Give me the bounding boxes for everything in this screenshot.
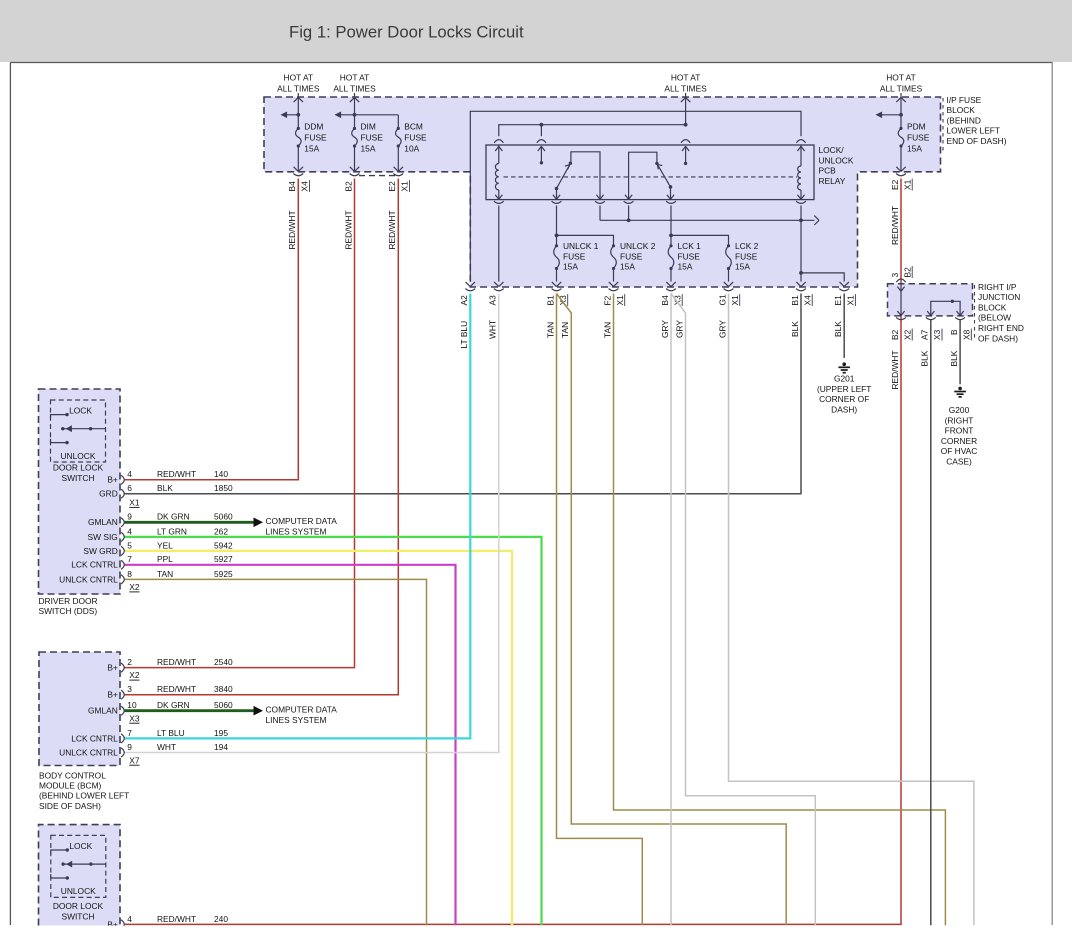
- svg-text:CASE): CASE): [946, 457, 972, 467]
- wire DDM branch arrow left: [282, 114, 299, 116]
- wire coil-L to pin A3: [498, 206, 500, 282]
- svg-text:LINES SYSTEM: LINES SYSTEM: [266, 715, 327, 725]
- pin B4/X3 connector: [666, 289, 676, 291]
- svg-text:YEL: YEL: [157, 540, 173, 550]
- svg-text:HOT AT: HOT AT: [340, 73, 369, 83]
- svg-text:B4: B4: [287, 181, 297, 192]
- bottom clip mask: [0, 926, 1072, 942]
- svg-text:5060: 5060: [214, 512, 233, 522]
- svg-text:X1: X1: [400, 181, 410, 192]
- svg-text:X4: X4: [802, 295, 812, 306]
- body control module (BCM) block: [39, 652, 120, 766]
- relay mechanical link (dashed): [504, 176, 798, 178]
- svg-text:SIDE OF DASH): SIDE OF DASH): [39, 801, 101, 811]
- connector X1 sub-box under DIM/BCM fuses: [359, 175, 395, 177]
- svg-text:B1: B1: [545, 295, 555, 306]
- fuse UNLCK 1 FUSE 15A: [555, 244, 558, 247]
- svg-text:CORNER OF: CORNER OF: [819, 394, 869, 404]
- wire relay top rail (A2 to right coil): [470, 111, 801, 281]
- relay switch SW1: [555, 187, 559, 191]
- pin B2 connector: [350, 174, 360, 176]
- svg-text:BLOCK: BLOCK: [947, 105, 976, 115]
- svg-text:FUSE: FUSE: [907, 132, 930, 142]
- svg-text:A2: A2: [459, 295, 469, 306]
- svg-text:GMLAN: GMLAN: [88, 706, 118, 716]
- svg-text:A7: A7: [920, 329, 930, 340]
- wire BLK 1850 (B1/X4 to DDS GRD): [124, 294, 801, 494]
- wire SW2 pivot to LCK fuses: [670, 206, 672, 246]
- lock/unlock PCB relay U1 box: [486, 145, 814, 200]
- svg-text:FUSE: FUSE: [620, 251, 643, 261]
- svg-text:240: 240: [214, 914, 228, 924]
- svg-text:G200: G200: [949, 405, 970, 415]
- svg-text:X8: X8: [962, 329, 972, 340]
- svg-text:DK GRN: DK GRN: [157, 700, 190, 710]
- svg-text:15A: 15A: [735, 262, 750, 272]
- svg-text:SWITCH: SWITCH: [61, 473, 94, 483]
- svg-text:LCK 1: LCK 1: [678, 241, 702, 251]
- svg-text:MODULE (BCM): MODULE (BCM): [39, 781, 102, 791]
- svg-text:RED/WHT: RED/WHT: [157, 914, 196, 924]
- wire DIM feed vertical: [354, 97, 356, 128]
- wire BLK ground run G200: [959, 320, 961, 385]
- svg-text:1850: 1850: [214, 483, 233, 493]
- svg-text:FUSE: FUSE: [563, 251, 586, 261]
- wire stub to relay pin: [540, 125, 542, 137]
- svg-text:FUSE: FUSE: [735, 251, 758, 261]
- svg-text:RED/WHT: RED/WHT: [890, 206, 900, 245]
- svg-text:PCB: PCB: [819, 166, 837, 176]
- svg-text:B+: B+: [107, 475, 118, 485]
- svg-text:GRY: GRY: [660, 320, 670, 338]
- svg-text:4: 4: [127, 914, 132, 924]
- svg-text:X4: X4: [300, 181, 310, 192]
- svg-text:5060: 5060: [214, 700, 233, 710]
- fuse DIM FUSE 15A: [353, 127, 356, 130]
- svg-text:RED/WHT: RED/WHT: [157, 469, 196, 479]
- svg-text:Fig 1: Power Door Locks Circui: Fig 1: Power Door Locks Circuit: [289, 23, 524, 42]
- svg-text:E2: E2: [387, 181, 397, 192]
- wire TAN 5925 (DDS UNLCK CNTRL, off-page): [124, 579, 427, 925]
- svg-text:X3: X3: [932, 329, 942, 340]
- pin A2 connector: [465, 289, 475, 291]
- svg-text:WHT: WHT: [488, 320, 498, 339]
- svg-text:HOT AT: HOT AT: [284, 73, 313, 83]
- svg-text:HOT AT: HOT AT: [671, 73, 700, 83]
- wire branch to pin E1: [801, 273, 844, 282]
- svg-text:LOCK: LOCK: [69, 841, 92, 851]
- svg-text:RIGHT END: RIGHT END: [978, 323, 1024, 333]
- svg-text:DRIVER DOOR: DRIVER DOOR: [39, 596, 98, 606]
- svg-text:GRY: GRY: [674, 320, 684, 338]
- svg-text:10: 10: [127, 700, 137, 710]
- svg-text:7: 7: [127, 728, 132, 738]
- svg-text:UNLOCK: UNLOCK: [819, 155, 854, 165]
- svg-text:TAN: TAN: [560, 322, 570, 338]
- svg-text:10A: 10A: [404, 143, 419, 153]
- svg-text:RED/WHT: RED/WHT: [157, 657, 196, 667]
- switch UNLOCK contact: [51, 874, 68, 878]
- svg-text:BODY CONTROL: BODY CONTROL: [39, 770, 106, 780]
- svg-text:X2: X2: [902, 329, 912, 340]
- wire BLK ground run G201: [843, 294, 845, 358]
- svg-text:5925: 5925: [214, 569, 233, 579]
- wire relay coil feed rail: [499, 125, 686, 137]
- svg-text:RED/WHT: RED/WHT: [287, 210, 297, 249]
- wire DIM fuse to pin B2: [354, 146, 356, 171]
- wire DK GRN 5060 to data link (BCM): [124, 709, 254, 712]
- svg-text:5927: 5927: [214, 554, 233, 564]
- svg-text:F2: F2: [602, 295, 612, 305]
- passenger door lock switch symbol: [51, 835, 106, 897]
- wire PDM branch arrow left: [877, 114, 902, 116]
- svg-text:LOCK: LOCK: [69, 406, 92, 416]
- pin 3/B2 connector (top): [896, 279, 905, 282]
- svg-text:BLK: BLK: [833, 321, 843, 337]
- relay coil left L1: [498, 145, 500, 164]
- svg-text:5942: 5942: [214, 540, 233, 550]
- svg-text:TAN: TAN: [602, 322, 612, 338]
- wire TAN 5925b (B1 diagonal, off-page): [557, 294, 787, 926]
- svg-text:DOOR LOCK: DOOR LOCK: [53, 463, 104, 473]
- svg-text:DIM: DIM: [361, 121, 376, 131]
- door lock switch (passenger) block: [39, 825, 121, 926]
- wire TAN (F2, off-page): [614, 294, 946, 926]
- svg-text:3: 3: [890, 273, 900, 278]
- svg-text:PDM: PDM: [907, 121, 926, 131]
- svg-text:ALL TIMES: ALL TIMES: [333, 84, 376, 94]
- svg-text:UNLOCK: UNLOCK: [61, 886, 96, 896]
- wire RED/WHT 240 (junction block to door lock switch B+): [124, 316, 901, 925]
- svg-text:194: 194: [214, 742, 228, 752]
- right I/P junction block callout: [974, 285, 976, 341]
- svg-text:G1: G1: [717, 294, 727, 306]
- I/P fuse block callout: [942, 98, 944, 152]
- svg-text:I/P FUSE: I/P FUSE: [947, 95, 982, 105]
- wire DDM feed vertical: [297, 97, 299, 128]
- wire LCK 1 fuse output: [670, 269, 672, 282]
- svg-text:X1: X1: [615, 295, 625, 306]
- wire through junction block: [900, 284, 902, 316]
- svg-text:COMPUTER DATA: COMPUTER DATA: [266, 516, 338, 526]
- svg-text:WHT: WHT: [157, 742, 176, 752]
- wire coil-R to pin B1/X4: [800, 206, 802, 282]
- relay coil right L2: [800, 145, 802, 166]
- svg-text:PPL: PPL: [157, 554, 173, 564]
- fuse DDM FUSE 15A: [297, 127, 300, 130]
- junction block internal bus: [931, 301, 960, 316]
- svg-text:GRD: GRD: [99, 489, 118, 499]
- svg-text:E1: E1: [833, 295, 843, 306]
- svg-text:15A: 15A: [620, 262, 635, 272]
- svg-text:X2: X2: [129, 582, 140, 592]
- wire SW2 leg to bus: [628, 206, 630, 221]
- relay switch SW2: [629, 152, 657, 199]
- svg-text:LCK CNTRL: LCK CNTRL: [71, 733, 118, 743]
- svg-text:B2: B2: [890, 329, 900, 340]
- svg-text:(RIGHT: (RIGHT: [945, 415, 974, 425]
- svg-text:ALL TIMES: ALL TIMES: [664, 84, 707, 94]
- svg-text:RELAY: RELAY: [819, 176, 846, 186]
- title bar: [0, 0, 1072, 62]
- pin E1/X1 connector: [839, 289, 849, 291]
- wire BCM fuse feed from branch: [397, 115, 399, 129]
- svg-text:GRY: GRY: [717, 320, 727, 338]
- svg-text:SWITCH (DDS): SWITCH (DDS): [39, 606, 98, 616]
- svg-text:B: B: [949, 329, 959, 335]
- svg-text:X3: X3: [129, 713, 140, 723]
- svg-text:SW GRD: SW GRD: [83, 546, 117, 556]
- svg-text:RED/WHT: RED/WHT: [157, 684, 196, 694]
- svg-text:CORNER: CORNER: [941, 436, 977, 446]
- svg-text:15A: 15A: [907, 143, 922, 153]
- svg-text:LOWER LEFT: LOWER LEFT: [947, 126, 1001, 136]
- svg-text:G201: G201: [834, 374, 855, 384]
- wire GRY (G1, off-page): [729, 294, 974, 926]
- svg-text:15A: 15A: [361, 143, 376, 153]
- pin E2/X1 connector: [393, 174, 403, 176]
- svg-text:JUNCTION: JUNCTION: [978, 292, 1020, 302]
- pin B1/X3 connector: [552, 289, 562, 291]
- svg-text:UNLOCK: UNLOCK: [61, 451, 96, 461]
- wire WHT 194 (A3 to BCM UNLCK CNTRL): [124, 294, 499, 753]
- pin A7/X3 connector: [926, 317, 936, 319]
- svg-text:B2: B2: [902, 267, 912, 278]
- wire PDM feed vertical: [900, 97, 902, 128]
- svg-text:9: 9: [127, 742, 132, 752]
- pin B2/X2 connector: [896, 317, 906, 319]
- svg-text:B+: B+: [107, 690, 118, 700]
- svg-text:GMLAN: GMLAN: [88, 517, 118, 527]
- wire BCM fuse to pin E2: [397, 146, 399, 171]
- svg-text:DASH): DASH): [831, 404, 857, 414]
- svg-text:B4: B4: [660, 295, 670, 306]
- svg-text:DOOR LOCK: DOOR LOCK: [53, 901, 104, 911]
- svg-text:RED/WHT: RED/WHT: [387, 210, 397, 249]
- svg-text:(BEHIND LOWER LEFT: (BEHIND LOWER LEFT: [39, 791, 129, 801]
- wire UNLCK 1 fuse output: [556, 269, 558, 282]
- svg-text:LCK 2: LCK 2: [735, 241, 759, 251]
- wire SW1 pivot to UNLCK fuses: [556, 206, 558, 246]
- svg-text:LCK CNTRL: LCK CNTRL: [71, 560, 118, 570]
- svg-text:FRONT: FRONT: [945, 426, 974, 436]
- svg-text:LT BLU: LT BLU: [157, 728, 185, 738]
- svg-text:X2: X2: [129, 670, 140, 680]
- wire output bus with off-page arrow: [600, 219, 815, 221]
- pin F2/X1 connector: [609, 289, 619, 291]
- svg-text:COMPUTER DATA: COMPUTER DATA: [266, 705, 338, 715]
- svg-text:X7: X7: [129, 755, 140, 765]
- I/P fuse block body: [264, 97, 941, 287]
- wire YEL 5942 (DDS SW GRD, off-page): [124, 551, 512, 925]
- svg-text:8: 8: [127, 569, 132, 579]
- svg-text:262: 262: [214, 526, 228, 536]
- relay bottom connector arcs: [494, 201, 504, 203]
- svg-text:140: 140: [214, 469, 228, 479]
- svg-text:DDM: DDM: [304, 121, 323, 131]
- wire RED/WHT 140 (DDM to DDS B+): [124, 179, 298, 480]
- svg-text:BLK: BLK: [157, 483, 173, 493]
- svg-text:BCM: BCM: [404, 121, 423, 131]
- switch common pole: [61, 862, 64, 865]
- svg-text:BLK: BLK: [790, 321, 800, 337]
- wire DDM fuse to pin B4: [297, 146, 299, 171]
- fuse LCK 1 FUSE 15A: [669, 244, 672, 247]
- wire GRY (B4 diagonal, off-page): [671, 294, 815, 926]
- pin G1/X1 connector: [724, 289, 734, 291]
- svg-text:TAN: TAN: [157, 569, 173, 579]
- pin B/X8 connector: [955, 317, 965, 319]
- svg-text:FUSE: FUSE: [404, 132, 427, 142]
- svg-text:HOT AT: HOT AT: [886, 73, 915, 83]
- wire PPL 5927 (DDS LCK CNTRL, off-page): [124, 565, 456, 925]
- svg-text:3: 3: [127, 684, 132, 694]
- svg-text:RIGHT I/P: RIGHT I/P: [978, 282, 1017, 292]
- pin B4/X4 connector: [293, 174, 303, 176]
- svg-text:15A: 15A: [304, 143, 319, 153]
- page border: [10, 62, 1053, 64]
- svg-text:BLOCK: BLOCK: [978, 302, 1007, 312]
- svg-text:LOCK/: LOCK/: [819, 145, 845, 155]
- svg-text:X1: X1: [129, 498, 140, 508]
- svg-text:X1: X1: [846, 295, 856, 306]
- svg-text:B2: B2: [343, 181, 353, 192]
- fuse PDM FUSE 15A: [899, 127, 902, 130]
- svg-text:4: 4: [127, 469, 132, 479]
- svg-text:LT BLU: LT BLU: [459, 321, 469, 349]
- svg-text:BLK: BLK: [949, 350, 959, 366]
- relay top connector arcs: [494, 140, 503, 143]
- svg-text:(BEHIND: (BEHIND: [947, 115, 981, 125]
- wire PDM fuse to pin E2: [900, 146, 902, 171]
- svg-text:X1: X1: [730, 295, 740, 306]
- svg-text:4: 4: [127, 526, 132, 536]
- svg-text:END OF DASH): END OF DASH): [947, 136, 1007, 146]
- wire UNLCK2 fuse feed: [557, 235, 614, 245]
- svg-text:DK GRN: DK GRN: [157, 512, 190, 522]
- relay NC stub pins: [540, 146, 542, 163]
- wire DK GRN 5060 to data link (DDS): [124, 521, 254, 524]
- wire DIM/BCM branch arrow left: [336, 114, 399, 116]
- wire BLK (A7, off-page): [930, 320, 932, 926]
- ground G201 symbol: [842, 362, 846, 366]
- svg-text:OF HVAC: OF HVAC: [941, 446, 978, 456]
- wire LT GRN 262 (DDS SW SIG, off-page): [124, 537, 542, 925]
- wire LCK 2 fuse output: [728, 269, 730, 282]
- svg-text:ALL TIMES: ALL TIMES: [277, 84, 320, 94]
- svg-text:FUSE: FUSE: [304, 132, 327, 142]
- switch UNLOCK contact: [51, 439, 68, 443]
- DDS door lock switch symbol: [51, 400, 106, 462]
- svg-text:7: 7: [127, 554, 132, 564]
- svg-text:X1: X1: [902, 179, 912, 190]
- svg-text:LINES SYSTEM: LINES SYSTEM: [266, 527, 327, 537]
- wire UNLCK 2 fuse output: [613, 269, 615, 282]
- ground G200 symbol: [958, 387, 962, 391]
- svg-text:UNLCK CNTRL: UNLCK CNTRL: [59, 747, 118, 757]
- switch common pole: [61, 427, 64, 430]
- svg-text:RED/WHT: RED/WHT: [890, 350, 900, 389]
- svg-text:UNLCK CNTRL: UNLCK CNTRL: [59, 574, 118, 584]
- wire LT BLU 195 (A2 to BCM LCK CNTRL): [124, 294, 470, 739]
- svg-text:B1: B1: [790, 295, 800, 306]
- svg-text:E2: E2: [890, 179, 900, 190]
- wire HOT AT drop to coil rail: [685, 97, 687, 125]
- wire GRY (B4 straight, off-page): [670, 294, 672, 926]
- svg-text:OF DASH): OF DASH): [978, 333, 1018, 343]
- svg-text:RED/WHT: RED/WHT: [343, 210, 353, 249]
- svg-text:6: 6: [127, 483, 132, 493]
- wire RED/WHT (PDM to junction block): [900, 179, 902, 284]
- svg-text:BLK: BLK: [920, 350, 930, 366]
- wire SW1 NO contact to output bus: [599, 206, 601, 221]
- svg-text:ALL TIMES: ALL TIMES: [880, 84, 923, 94]
- pin E2/X1 connector (PDM): [896, 174, 906, 176]
- svg-text:3840: 3840: [214, 684, 233, 694]
- svg-text:TAN: TAN: [545, 322, 555, 338]
- svg-text:5: 5: [127, 540, 132, 550]
- svg-text:(UPPER LEFT: (UPPER LEFT: [817, 384, 871, 394]
- svg-text:SW SIG: SW SIG: [88, 532, 118, 542]
- pin B1/X4 connector: [796, 289, 806, 291]
- svg-text:195: 195: [214, 728, 228, 738]
- svg-text:SWITCH: SWITCH: [61, 911, 94, 921]
- svg-text:B+: B+: [107, 663, 118, 673]
- driver door switch (DDS) block: [39, 389, 121, 594]
- pin A3 connector: [494, 289, 504, 291]
- wire LCK2 fuse feed: [671, 235, 729, 245]
- svg-text:15A: 15A: [563, 262, 578, 272]
- svg-text:UNLCK 1: UNLCK 1: [563, 241, 599, 251]
- svg-text:(BELOW: (BELOW: [978, 313, 1011, 323]
- svg-text:LT GRN: LT GRN: [157, 526, 187, 536]
- svg-text:15A: 15A: [678, 262, 693, 272]
- right I/P junction block body: [888, 284, 973, 316]
- svg-text:2: 2: [127, 657, 132, 667]
- svg-text:UNLCK 2: UNLCK 2: [620, 241, 656, 251]
- fuse LCK 2 FUSE 15A: [727, 244, 730, 247]
- svg-text:FUSE: FUSE: [361, 132, 384, 142]
- svg-text:9: 9: [127, 512, 132, 522]
- fuse BCM FUSE 10A: [397, 127, 400, 130]
- svg-text:A3: A3: [488, 295, 498, 306]
- svg-text:2540: 2540: [214, 657, 233, 667]
- wire RED/WHT 3840 (BCM fuse to BCM B+): [124, 179, 398, 695]
- svg-text:FUSE: FUSE: [678, 251, 701, 261]
- wire TAN 5925a (B1 straight, off-page): [557, 294, 643, 926]
- fuse UNLCK 2 FUSE 15A: [612, 244, 615, 247]
- wire RED/WHT 2540 (DIM to BCM B+): [124, 179, 355, 668]
